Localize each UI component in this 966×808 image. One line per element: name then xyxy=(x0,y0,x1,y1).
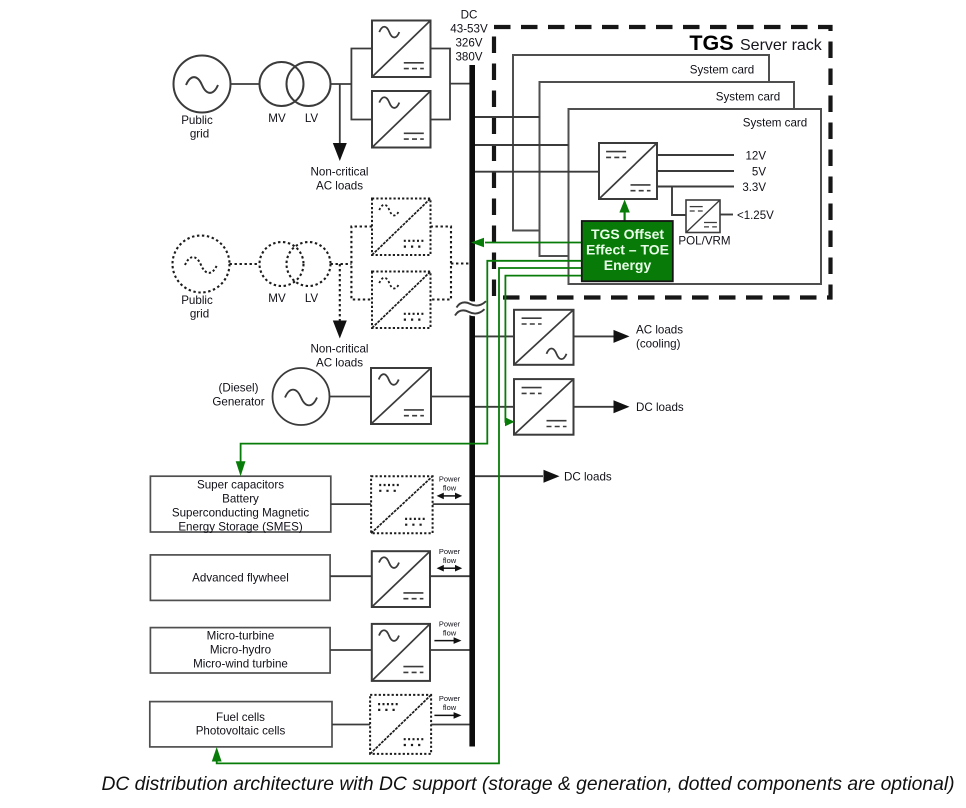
green box TGS Offset Effect TOE Energy xyxy=(582,221,673,281)
wire: bus to card 3 DC/DC converter xyxy=(475,171,599,173)
svg-text:Advanced flywheel: Advanced flywheel xyxy=(192,572,289,585)
svg-text:flow: flow xyxy=(443,484,457,493)
label Power flow (micro) xyxy=(439,619,461,637)
svg-text:Power: Power xyxy=(439,475,461,484)
svg-text:<1.25V: <1.25V xyxy=(737,210,774,222)
wire: 3.3V output xyxy=(657,186,734,188)
wire: converter to DC bus (generator) xyxy=(431,396,470,398)
power flow arrow (flywheel) xyxy=(437,565,463,572)
storage box: super capacitors / battery / SMES xyxy=(150,476,330,533)
green wire A: TOE to super capacitors bank xyxy=(236,261,582,476)
converter AC/DC U10 (micro) xyxy=(372,624,430,681)
generation box: micro-turbine / micro-hydro / micro-wind xyxy=(150,628,330,673)
green wire: TOE up-arrow to DC/DC converter xyxy=(619,200,629,222)
label LV (optional) xyxy=(305,292,319,305)
converter DC/DC U7 (DC loads) xyxy=(514,379,574,435)
svg-text:MV: MV xyxy=(268,112,286,125)
label Non-critical AC loads (optional) xyxy=(311,343,369,370)
svg-text:43-53V: 43-53V xyxy=(450,23,488,36)
system card 2 xyxy=(540,82,795,256)
system card 1 xyxy=(513,55,769,231)
svg-text:3.3V: 3.3V xyxy=(742,182,766,194)
wire: bracket to DC bus (top) xyxy=(450,83,470,85)
power flow arrow (storage) xyxy=(437,493,463,500)
wire: converter to bus (fuel cells) xyxy=(431,724,469,726)
label (Diesel) Generator xyxy=(212,382,264,409)
label POL/VRM xyxy=(678,235,730,248)
svg-text:TGS: TGS xyxy=(689,31,733,55)
wire: bus to system card 2 xyxy=(475,144,569,146)
power flow arrow (fuel) xyxy=(434,712,461,719)
svg-text:TGS Offset: TGS Offset xyxy=(591,226,664,242)
wire: 12V output xyxy=(657,154,734,156)
svg-text:flow: flow xyxy=(443,556,457,565)
svg-text:Fuel cells: Fuel cells xyxy=(216,711,265,724)
svg-text:DC loads: DC loads xyxy=(564,471,612,484)
svg-text:Energy: Energy xyxy=(604,257,652,273)
label TGS xyxy=(689,31,733,55)
transformer MV/LV (top) xyxy=(260,62,331,106)
server rack dashed enclosure xyxy=(494,27,831,298)
svg-text:Non-critical: Non-critical xyxy=(311,343,369,356)
svg-text:(cooling): (cooling) xyxy=(636,338,681,351)
wire+arrow: inverter to AC loads xyxy=(574,330,630,343)
svg-text:Superconducting Magnetic: Superconducting Magnetic xyxy=(172,507,309,520)
label <1.25V xyxy=(737,210,774,222)
converter AC/DC U9 (flywheel) xyxy=(372,551,430,607)
label Power flow (storage) xyxy=(439,475,461,493)
green wire C: TOE to DC loads converter xyxy=(505,276,582,427)
converter AC/DC U1b xyxy=(372,91,431,148)
DC bus voltage label xyxy=(450,9,488,64)
svg-text:AC loads: AC loads xyxy=(316,357,363,370)
svg-text:flow: flow xyxy=(443,703,457,712)
svg-text:326V: 326V xyxy=(455,37,482,50)
wire: storage box to converter xyxy=(331,503,371,505)
svg-text:Energy Storage (SMES): Energy Storage (SMES) xyxy=(178,521,303,534)
svg-text:Effect – TOE: Effect – TOE xyxy=(586,242,669,258)
wire+arrow: converter to DC loads xyxy=(574,400,630,413)
svg-text:Power: Power xyxy=(439,694,461,703)
svg-text:Super capacitors: Super capacitors xyxy=(197,479,284,492)
label 3.3V xyxy=(742,182,766,194)
label Public grid (top) xyxy=(181,114,213,141)
label Server rack xyxy=(740,37,823,54)
label DC loads (converter) xyxy=(636,401,684,414)
svg-text:Power: Power xyxy=(439,547,461,556)
wire: right bracket (dotted converters) xyxy=(431,227,452,300)
wire: micro box to converter xyxy=(330,649,372,651)
svg-text:POL/VRM: POL/VRM xyxy=(678,235,730,248)
label AC loads (cooling) xyxy=(636,324,683,351)
wire: converter to bus (storage) xyxy=(433,503,470,505)
converter AC/DC U2b (optional) xyxy=(372,272,431,329)
svg-text:Generator: Generator xyxy=(212,396,264,409)
wire: 5V output xyxy=(657,170,734,172)
svg-text:grid: grid xyxy=(190,128,209,141)
wire: bus to DC/DC (DC loads) xyxy=(475,406,514,408)
wire: left bracket (top converters) xyxy=(351,49,372,120)
converter DC/AC U6 (AC loads) xyxy=(514,310,574,365)
svg-text:DC: DC xyxy=(461,9,478,22)
svg-text:MV: MV xyxy=(268,292,286,305)
wire: bus to inverter (AC loads) xyxy=(475,335,514,337)
svg-text:System card: System card xyxy=(716,91,780,104)
transformer MV/LV (optional, dotted) xyxy=(260,242,331,286)
label Non-critical AC loads (top) xyxy=(311,166,369,193)
bus break squiggle xyxy=(455,301,486,315)
label Public grid (optional) xyxy=(181,294,213,321)
converter DC/DC U11 (fuel cells, optional) xyxy=(370,695,431,754)
svg-text:380V: 380V xyxy=(455,51,482,64)
label 12V xyxy=(746,151,767,163)
svg-text:Public: Public xyxy=(181,294,213,307)
svg-text:DC loads: DC loads xyxy=(636,401,684,414)
AC source: diesel generator xyxy=(273,368,330,425)
label MV (top) xyxy=(268,112,286,125)
converter DC/DC U8 (storage, optional) xyxy=(371,476,433,533)
label LV (top) xyxy=(305,112,319,125)
wire: grid to transformer xyxy=(231,83,261,85)
wire: generator to converter xyxy=(330,396,372,398)
wire: grid to transformer (dotted) xyxy=(230,263,261,265)
wire: converter to bus (micro) xyxy=(430,649,470,651)
svg-text:Non-critical: Non-critical xyxy=(311,166,369,179)
green wire: TOE to DC bus (arrow left) xyxy=(471,238,582,247)
svg-text:AC loads: AC loads xyxy=(316,180,363,193)
svg-text:grid: grid xyxy=(190,308,209,321)
storage box: advanced flywheel xyxy=(150,555,330,601)
wire: converter to bus (flywheel) xyxy=(430,575,470,577)
AC source: Public grid (top) xyxy=(174,56,231,113)
converter POL/VRM U5 xyxy=(686,200,720,233)
wire: branch down non-critical AC loads (top) xyxy=(333,84,347,161)
wire: branch down non-critical AC loads (dotted) xyxy=(333,264,347,339)
DC bus xyxy=(469,65,475,747)
label 5V xyxy=(752,167,766,179)
svg-text:System card: System card xyxy=(743,117,807,130)
svg-text:12V: 12V xyxy=(746,151,767,163)
converter AC/DC U1a xyxy=(372,21,431,78)
label Power flow (flywheel) xyxy=(439,547,461,565)
power flow arrow (micro) xyxy=(434,637,461,644)
svg-text:LV: LV xyxy=(305,112,319,125)
wire: LV to converter bracket xyxy=(331,83,352,85)
svg-text:Power: Power xyxy=(439,619,461,628)
wire: 3.3V tap to POL/VRM xyxy=(672,187,686,216)
svg-text:Micro-wind turbine: Micro-wind turbine xyxy=(193,658,288,671)
svg-text:AC loads: AC loads xyxy=(636,324,683,337)
svg-text:Micro-turbine: Micro-turbine xyxy=(207,630,275,643)
label DC loads (direct) xyxy=(564,471,612,484)
converter DC/DC U4 (system card) xyxy=(599,143,657,199)
wire: LV to bracket (dotted) xyxy=(331,263,352,265)
svg-text:LV: LV xyxy=(305,292,319,305)
svg-text:Server rack: Server rack xyxy=(740,37,823,54)
generation box: fuel cells / photovoltaic cells xyxy=(150,702,332,747)
svg-text:(Diesel): (Diesel) xyxy=(219,382,259,395)
converter AC/DC U2a (optional) xyxy=(372,199,431,256)
AC source: Public grid (optional, dotted) xyxy=(173,236,230,293)
svg-text:DC distribution architecture w: DC distribution architecture with DC sup… xyxy=(101,774,954,795)
system card 3 xyxy=(569,109,822,284)
wire: flywheel box to converter xyxy=(330,575,372,577)
wire: bus to system card 1 xyxy=(475,116,540,118)
svg-text:flow: flow xyxy=(443,628,457,637)
caption xyxy=(101,774,954,795)
wire: right bracket (top converters) xyxy=(431,49,451,120)
label MV (optional) xyxy=(268,292,286,305)
wire+arrow: bus direct to DC loads xyxy=(475,470,560,483)
svg-text:Photovoltaic cells: Photovoltaic cells xyxy=(196,725,286,738)
green wire B: TOE to fuel cells xyxy=(212,268,582,763)
svg-text:Public: Public xyxy=(181,114,213,127)
label Power flow (fuel) xyxy=(439,694,461,712)
wire: bracket to DC bus (dotted) xyxy=(451,262,470,264)
wire: fuel cells box to converter xyxy=(332,724,370,726)
svg-text:5V: 5V xyxy=(752,167,766,179)
converter AC/DC U3 (generator) xyxy=(371,368,431,424)
svg-text:Battery: Battery xyxy=(222,493,259,506)
wire: POL/VRM output xyxy=(720,214,733,216)
svg-text:Micro-hydro: Micro-hydro xyxy=(210,644,271,657)
wire: left bracket (dotted converters) xyxy=(351,227,372,300)
svg-text:System card: System card xyxy=(690,64,754,77)
